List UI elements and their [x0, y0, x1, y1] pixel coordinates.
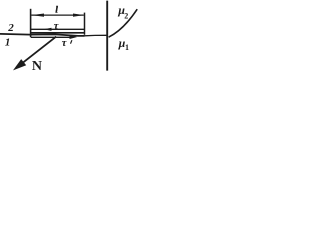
dimension left arrowhead: [31, 14, 44, 17]
rod bottom edge: [31, 32, 85, 34]
rod left edge: [30, 9, 32, 37]
svg-text:1: 1: [5, 37, 10, 49]
svg-text:1: 1: [125, 43, 129, 52]
tau arrowhead: [44, 28, 52, 31]
background: [0, 0, 139, 76]
wire: boundary line right of rod: [85, 34, 108, 37]
label tau-prime tick: [71, 40, 72, 44]
N arrowhead: [13, 59, 26, 70]
wire: boundary line between regions 1 and 2: [0, 34, 85, 36]
rod top edge: [31, 28, 85, 30]
wire: inclined line to upper right: [109, 9, 138, 37]
tau-prime arrow shaft: [31, 36, 71, 38]
svg-text:N: N: [32, 59, 42, 74]
svg-text:2: 2: [7, 22, 14, 34]
svg-text:2: 2: [124, 12, 128, 21]
arrow N shaft: [20, 37, 57, 66]
rod right edge: [84, 13, 86, 35]
tau-prime arrowhead: [70, 35, 78, 39]
wire: vertical boundary line: [106, 1, 108, 71]
dimension line l: [31, 14, 84, 16]
dimension right arrowhead: [73, 14, 84, 17]
